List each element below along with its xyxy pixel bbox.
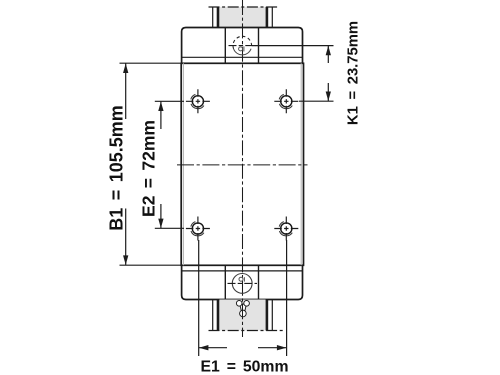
mounting hole top-right [274,89,298,113]
wire: rail bottom right thick edge [266,300,269,331]
wire: rail top left thick edge [217,7,220,28]
wire: cap inner horizontal line [182,56,303,58]
rail bottom (gray section) [209,300,286,331]
wire: cap center section right line [258,28,260,64]
dimension E1 = 50mm [199,240,289,375]
node: E1 arrow right [277,345,287,350]
node: bottom nipple horizontal crosshair [228,282,258,284]
node: E1 arrow left [199,345,209,350]
wire: K1 bottom extension line [299,100,334,102]
node: rail top break line [209,6,280,8]
wire: bottom cap center section left line [224,265,226,299]
grease fitting on bottom rail [236,301,249,317]
wire: B1 bottom extension line [120,264,182,266]
node: E2 arrow down [158,219,163,229]
dimension E2 = 72mm [139,101,185,228]
wire: rail top left thin edge [212,7,214,28]
wire: body inner right gray line [300,63,302,265]
mounting hole bottom-right [274,217,298,241]
svg-text:E2 = 72mm: E2 = 72mm [139,120,159,217]
dimension K1 = 23.75mm [252,21,361,125]
horizontal centerline [177,164,308,166]
wire: K1 dimension line lower segment [327,83,329,101]
wire: E2 dimension line upper segment [160,102,162,130]
vertical centerline [242,0,244,337]
wire: rail bottom left thick edge [217,300,220,331]
wire: E1 dimension line left segment [199,347,227,349]
carriage top end cap [182,28,303,64]
grease nipple bottom (solid circle) [228,274,258,294]
dimension B1 = 105.5mm [107,63,182,265]
wire: E2 top extension line [155,100,184,102]
svg-text:E1 = 50mm: E1 = 50mm [201,359,289,375]
wire: rail top right thin edge [271,7,273,28]
wire: body inner left gray line [182,63,184,265]
rail top (gray section) [209,7,280,28]
wire: rail top right thick edge [266,7,269,28]
wire: E1 dimension line right segment [258,347,286,349]
node: rail bottom break line [209,330,286,332]
carriage body [181,63,303,265]
wire: E1 left extension line [198,240,200,356]
wire: K1 top extension line [252,45,333,47]
node: top nipple horizontal crosshair [229,45,257,47]
wire: E2 bottom extension line [155,227,184,229]
wire: E1 right extension line [286,240,288,356]
wire: E2 dimension line lower segment [160,204,162,228]
wire: bottom cap inner horizontal line [182,270,303,272]
wire: B1 top extension line [120,62,182,64]
wire: cap center section left line [224,28,226,64]
svg-text:K1 = 23.75mm: K1 = 23.75mm [346,21,362,125]
wire: rail bottom left thin edge [212,300,214,331]
wire: rail bottom right thin edge [271,300,273,331]
node: B1 arrow down [123,255,128,265]
svg-text:B1 = 105.5mm: B1 = 105.5mm [107,105,127,231]
carriage bottom end cap [182,265,303,299]
wire: B1 dimension line upper segment [125,64,127,120]
node: K1 arrow up [326,46,331,56]
mounting hole top-left [186,89,210,113]
grease nipple top (dashed circle) [229,36,257,55]
node: E2 arrow up [158,102,163,112]
wire: bottom cap center section right line [258,265,260,299]
node: B1 arrow up [123,64,128,74]
mounting hole bottom-left [186,217,210,241]
wire: K1 dimension line upper segment [327,46,329,63]
node: K1 arrow down [326,92,331,102]
wire: B1 dimension line lower segment [125,209,127,265]
